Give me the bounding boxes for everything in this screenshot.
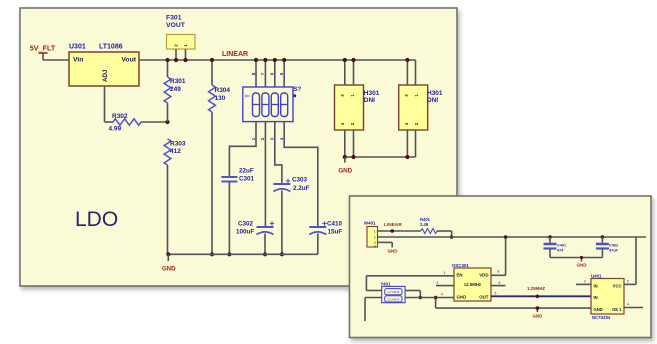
svg-text:DNI: DNI (364, 97, 375, 104)
svg-text:U301: U301 (69, 44, 86, 51)
svg-text:2: 2 (374, 235, 376, 239)
crystal Y401 dual footprint (381, 281, 406, 302)
svg-text:130: 130 (215, 95, 226, 102)
main output rail wire VOUT/LINEAR (139, 59, 416, 61)
svg-text:8: 8 (498, 269, 500, 273)
svg-text:2.49: 2.49 (420, 222, 429, 227)
wire U401 OE stub (624, 303, 643, 308)
svg-text:R301: R301 (170, 78, 186, 85)
svg-text:LINEAR: LINEAR (384, 222, 402, 228)
wire 5V_FLT to U301 Vin (43, 59, 69, 61)
header H301 DNI (second) (399, 58, 443, 157)
svg-text:1.25MHZ: 1.25MHZ (527, 286, 545, 291)
wire OSC OUT to U401 (491, 292, 591, 299)
svg-text:15uF: 15uF (328, 229, 343, 236)
wire connector pin1 to R401 (378, 229, 421, 233)
svg-text:4.99: 4.99 (109, 126, 122, 133)
svg-text:5: 5 (627, 280, 629, 284)
wire switch pin1 to C301 (229, 129, 256, 178)
svg-text:12.5MHz: 12.5MHz (464, 282, 481, 287)
svg-text:Vout: Vout (121, 57, 136, 64)
svg-text:R303: R303 (170, 141, 186, 148)
resistor R301 249 (164, 58, 186, 122)
wire connector pin3 to GND (378, 242, 398, 253)
svg-text:GND: GND (594, 307, 603, 312)
resistor R401 2.49 (420, 217, 452, 233)
svg-text:VCC: VCC (613, 284, 622, 289)
power port 5V_FLT (30, 44, 56, 61)
svg-text:R302: R302 (112, 113, 128, 120)
wire U401 VCC to rail (624, 237, 636, 284)
svg-text:47uF: 47uF (609, 249, 619, 253)
svg-text:100uF: 100uF (236, 229, 254, 236)
wire switch pin3 to C303 (275, 129, 282, 185)
capacitor C402 (596, 235, 619, 257)
svg-text:1: 1 (444, 271, 446, 275)
svg-text:412: 412 (170, 148, 181, 155)
svg-text:4: 4 (441, 293, 443, 297)
svg-text:LINEAR: LINEAR (222, 51, 248, 58)
svg-text:4: 4 (627, 303, 629, 307)
capacitor C303 2.2uF (273, 177, 309, 257)
svg-text:2.2uF: 2.2uF (293, 185, 310, 192)
resistor R304 130 (209, 58, 231, 257)
wire OSC301 pin2 stub (436, 281, 454, 286)
wire capacitor ground link (550, 256, 602, 268)
wire OSC301 GND pin (434, 293, 454, 309)
ground rail wire bottom (168, 253, 317, 255)
svg-text:4: 4 (374, 245, 376, 249)
svg-text:VDD: VDD (479, 272, 488, 277)
svg-text:8: 8 (251, 72, 256, 75)
svg-text:GND: GND (338, 168, 352, 175)
svg-text:ADJ: ADJ (102, 69, 109, 82)
ground GND under H301 (338, 157, 352, 175)
svg-text:OUT: OUT (479, 295, 489, 300)
svg-text:C302: C302 (238, 221, 254, 228)
wire Y401 top right step (405, 291, 422, 300)
wire U301 ADJ pin down (104, 86, 106, 122)
svg-text:249: 249 (170, 86, 181, 93)
svg-text:NC7SZ04: NC7SZ04 (592, 315, 611, 320)
fuse F301 VOUT (166, 15, 195, 63)
regulator U301 LT1086 (69, 44, 139, 87)
svg-text:6: 6 (499, 281, 501, 285)
wire ground net to U401 pin3 (436, 306, 591, 318)
wire R401 down to VDD rail (450, 231, 454, 239)
wire OSC301 EN (366, 271, 454, 291)
svg-text:GND: GND (457, 295, 467, 300)
svg-text:T: T (246, 94, 252, 97)
svg-text:S?: S? (294, 87, 302, 93)
svg-text:VOUT: VOUT (166, 22, 186, 29)
svg-text:2: 2 (437, 281, 439, 285)
svg-text:1: 1 (374, 230, 376, 234)
node ADJ junction at R301/R303 (165, 120, 169, 124)
svg-text:GND: GND (162, 266, 176, 273)
svg-text:C402: C402 (609, 244, 618, 248)
svg-text:GND: GND (577, 263, 587, 268)
svg-text:LDO: LDO (75, 208, 118, 231)
capacitor C302 100uF (236, 221, 274, 257)
header H301 DNI (first) (335, 58, 380, 157)
svg-text:474: 474 (557, 249, 564, 253)
svg-text:U401: U401 (591, 273, 602, 278)
svg-text:GND: GND (388, 249, 398, 254)
wire switch pin2 to C302 (264, 129, 266, 228)
wire OSC301 VDD to rail (491, 235, 507, 285)
svg-text:12.5MHZ: 12.5MHZ (387, 297, 400, 301)
oscillator OSC301 (452, 263, 491, 301)
svg-text:R304: R304 (215, 87, 231, 94)
svg-text:EN: EN (457, 272, 463, 277)
svg-text:OE 1: OE 1 (612, 307, 622, 312)
svg-text:C301: C301 (239, 176, 255, 183)
wire Y401 top left (366, 290, 381, 292)
svg-text:Vin: Vin (73, 57, 83, 64)
svg-text:GND: GND (533, 314, 543, 319)
svg-text:IN: IN (594, 284, 598, 289)
svg-text:IN: IN (594, 295, 598, 300)
wire switch pin4 to C410 (284, 129, 318, 228)
svg-text:2: 2 (584, 280, 586, 284)
svg-text:C410: C410 (327, 221, 343, 228)
resistor R303 412 (164, 139, 186, 254)
wire VDD rail (connector pin2) (378, 236, 647, 238)
svg-text:F301: F301 (166, 15, 182, 22)
svg-text:12.5MHZ: 12.5MHZ (387, 290, 400, 294)
svg-text:LT1086: LT1086 (99, 44, 123, 51)
svg-text:22uF: 22uF (239, 168, 254, 175)
resistor R302 4.99 (105, 113, 168, 133)
svg-text:C401: C401 (557, 244, 566, 248)
wire Y401 bottom net (365, 298, 436, 322)
panel: LDO schematic sheet (20, 8, 457, 286)
capacitor C410 15uF (309, 221, 342, 255)
svg-text:W401: W401 (364, 221, 376, 226)
svg-text:5: 5 (495, 292, 497, 296)
svg-text:OSC301: OSC301 (452, 263, 469, 268)
panel: oscillator schematic sheet (350, 196, 652, 338)
svg-text:Y401: Y401 (381, 281, 391, 286)
svg-text:1: 1 (251, 137, 256, 140)
wire U401 pin2 stub (576, 280, 591, 285)
capacitor C301 22uF (221, 168, 254, 257)
svg-text:C303: C303 (292, 177, 308, 184)
wire H301 ground link (345, 156, 416, 158)
svg-text:DNI: DNI (427, 97, 438, 104)
inverter U401 NC7SZ04 (591, 273, 624, 320)
switch S? DIP (243, 58, 302, 140)
connector W401 (364, 221, 378, 249)
svg-text:5V_FLT: 5V_FLT (30, 44, 56, 53)
capacitor C401 (544, 235, 567, 257)
ground GND bottom (162, 254, 176, 272)
